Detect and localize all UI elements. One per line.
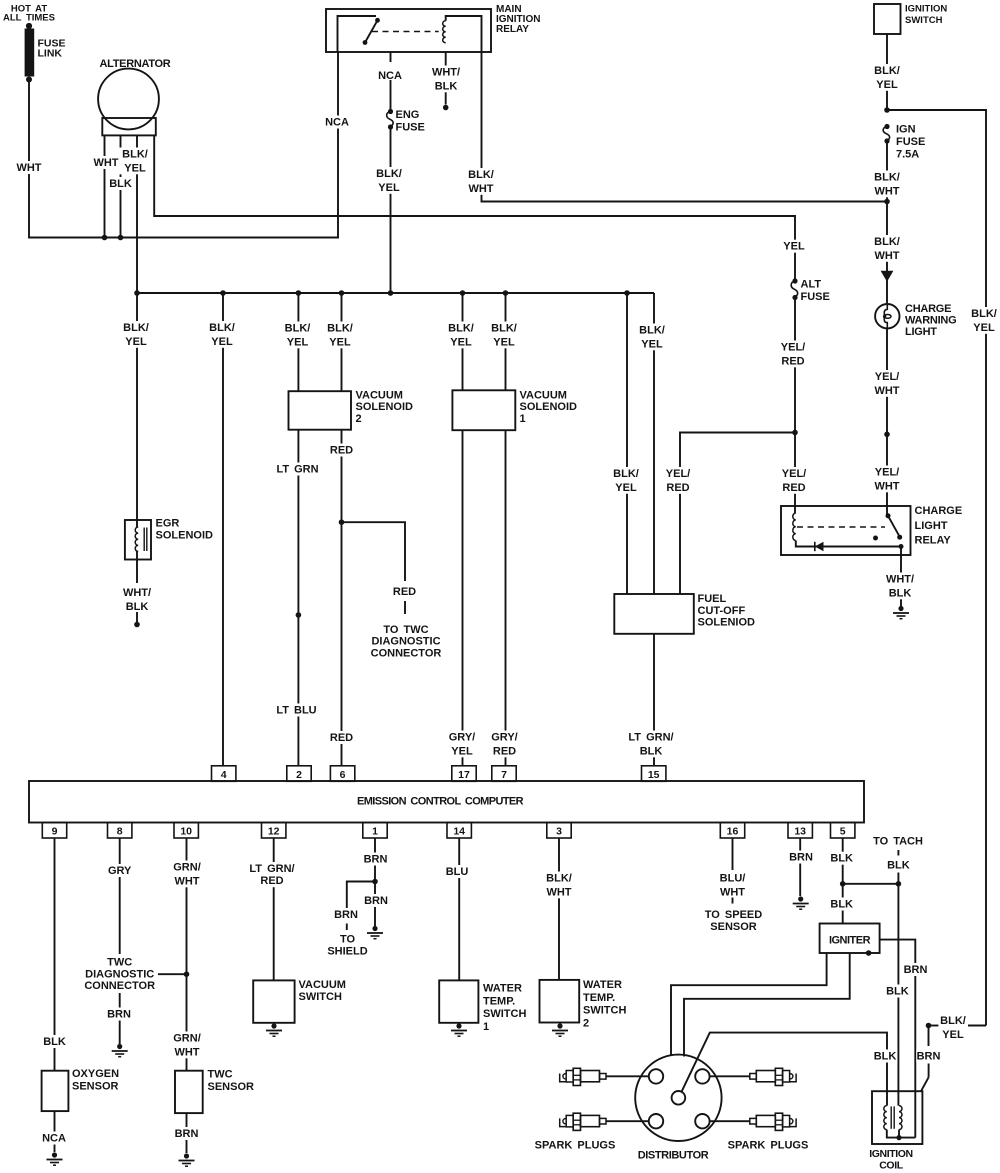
svg-text:16: 16 [727,826,739,838]
svg-text:WHT/: WHT/ [123,587,151,599]
node junction WHT/alternator WHT [102,235,108,241]
wire label BRN (shield branch) [334,908,359,921]
relay K1 switch pivot node [375,18,380,23]
svg-text:WHT: WHT [874,480,899,492]
svg-text:ALL TIMES: ALL TIMES [3,13,55,24]
ECC pin 15 box [642,766,666,782]
svg-text:BLK/: BLK/ [874,65,900,77]
ground below TWC sensor [184,1153,189,1158]
wire BRN dash to shield [346,924,348,931]
svg-text:1: 1 [483,1021,489,1033]
svg-text:1: 1 [372,826,378,838]
wire label BLK (pin 9) [42,1035,67,1048]
wire label BLU [445,865,470,878]
wire label BLK/WHT (below IGN fuse) [871,171,902,198]
wire NCA / ENG FUSE feed from relay [390,52,392,62]
wire TWC diagnostic connector link to GRN/WHT [158,973,187,975]
node bus-pin4 [220,290,226,296]
wire label BLK/YEL (right edge) [968,307,999,334]
svg-text:YEL/: YEL/ [875,467,899,479]
ECC pin 9 box [42,823,66,839]
ignition coil primary winding [884,1106,887,1130]
wire GRY/RED from VS1 to ECC pin 7 [505,430,507,766]
TWC diagnostic connector label [84,956,156,993]
ground below BRN pin 1 [372,926,377,931]
igniter U2 box [820,924,880,954]
wire GRY from ECC pin 8 [119,838,121,954]
fuse F-ENG [388,109,393,114]
wire BLK/YEL stub [929,1025,939,1027]
wire label BLK/YEL (VS1 right) [488,322,519,349]
wire label BLK/WHT (to warning light) [871,235,902,262]
ignition coil T1 box [872,1091,922,1144]
svg-text:WATER: WATER [583,979,622,991]
svg-text:VACUUM: VACUUM [520,390,567,402]
ECC pin 3 box [547,823,571,839]
wire WHT from fuse link to NCA rail [29,52,338,238]
svg-text:CONNECTOR: CONNECTOR [371,647,442,659]
ECC pin 13 box [788,823,812,839]
wire label GRY [108,864,133,877]
svg-text:YEL: YEL [641,338,663,350]
node bus-ENGfuse [388,290,394,296]
wire label GRY/RED [489,731,520,758]
wire label WHT/BLK (relay coil) [430,66,461,93]
wire BRN branch to shield [347,882,375,909]
svg-text:BLK/: BLK/ [940,1015,966,1027]
spark plug top-left [600,1074,607,1080]
wire BRN from ECC pin 13 [799,838,801,896]
wire label LT GRN/BLK [625,731,677,758]
wire label BLK/YEL (alternator) [119,148,150,175]
relay K1 switch arm end node [363,40,368,45]
wire BLK from tach junction to ignition coil [897,884,899,1106]
wire label WHT/BLK (relay K2) [884,573,915,600]
svg-text:BLK: BLK [126,601,149,613]
wire label RED (below VS2) [329,444,354,457]
svg-text:YEL: YEL [493,336,515,348]
wire BLK/YEL bus end to fuel cut-off solenoid [653,293,655,594]
node bus-pin17 [460,290,466,296]
svg-text:BLK/: BLK/ [122,149,148,161]
node bus-pin7 [503,290,509,296]
svg-text:WHT: WHT [720,886,745,898]
diode D1 in relay K2 [815,542,824,551]
svg-text:IGNITION: IGNITION [905,3,947,14]
wire label WHT/BLK (EGR) [121,586,152,613]
relay K2 spare contact node [873,536,878,541]
svg-text:LIGHT: LIGHT [915,520,948,532]
svg-text:YEL: YEL [451,745,473,757]
wire label BLK/WHT (pin 3) [543,872,574,899]
svg-text:CONNECTOR: CONNECTOR [84,980,155,992]
wire RED jog to TWC diagnostic connector [342,522,406,581]
wire BLU from ECC pin 14 to water temp switch 1 [458,838,460,980]
ECC pin 10 box [174,823,198,839]
wire label BLK/YEL (VS2 right) [324,322,355,349]
node BLK/YEL junction at ignition switch [884,107,890,113]
EGR solenoid coil [136,520,138,527]
svg-text:RED: RED [260,875,283,887]
vacuum solenoid 2 box [289,391,352,430]
wire TACH dash [897,850,899,856]
wire BLK from tach to junction [897,873,899,884]
svg-text:VACUUM: VACUUM [356,390,403,402]
relay K2 switch pivot node [886,513,891,518]
wire label BLK/YEL (pin 4) [206,321,237,348]
svg-text:YEL/: YEL/ [781,342,805,354]
TWC sensor box [175,1071,203,1113]
svg-text:7: 7 [501,769,507,781]
wire label YEL/WHT (lower) [871,466,902,493]
svg-text:BLU/: BLU/ [720,873,746,885]
node BRN junction [372,879,378,885]
EGR solenoid box [125,520,151,560]
node BLK junction pin5 [840,881,846,887]
oxygen sensor box [42,1071,69,1111]
ECC pin 16 box [720,823,744,839]
wire BRN below TWC sensor [186,1113,188,1153]
wire label WHT (alternator) [94,156,119,169]
wire BRN from igniter to ignition coil [880,940,916,1138]
wire label LT GRN/RED [246,862,298,887]
wire label YEL/WHT (upper) [871,370,902,397]
wire BRN from ECC pin 1 [374,838,376,882]
wire YEL/RED to charge light relay coil [794,433,796,514]
ground below TWC diagnostic connector [117,1044,122,1049]
svg-text:4: 4 [221,769,227,781]
svg-text:RELAY: RELAY [915,535,952,547]
relay K2 coil [793,513,796,541]
svg-text:GRY/: GRY/ [449,732,476,744]
wire BLK/YEL from alternator to bus [136,135,138,293]
svg-text:BLK/: BLK/ [468,169,494,181]
wire label NCA (oxygen sensor) [42,1132,67,1145]
svg-text:WHT: WHT [93,157,118,169]
svg-text:COIL: COIL [879,1160,903,1172]
svg-text:FUSE: FUSE [896,136,925,148]
wire LT GRN from VS2 to ECC pin 2 [297,430,299,766]
svg-text:TWC: TWC [208,1069,233,1081]
svg-text:SWITCH: SWITCH [905,15,943,26]
svg-text:BLK/: BLK/ [613,468,639,480]
wire WHT from alternator [104,135,106,237]
wire BLK/YEL bus to vacuum solenoid 1 right [505,293,507,390]
svg-text:SOLENOID: SOLENOID [520,401,578,413]
svg-text:WHT: WHT [546,886,571,898]
svg-text:7.5A: 7.5A [896,149,919,161]
svg-text:GRN/: GRN/ [173,862,201,874]
svg-text:SOLENIOD: SOLENIOD [698,617,756,629]
wire BRN from TWC diagnostic connector [119,993,121,1044]
svg-text:TEMP.: TEMP. [483,995,515,1007]
ground below vacuum switch [273,1023,275,1024]
svg-text:BRN: BRN [904,964,928,976]
wire BLU/WHT from ECC pin 16 [732,838,734,870]
svg-text:YEL: YEL [211,336,233,348]
fuel cut-off solenoid box [614,594,694,634]
wire GRN/WHT from ECC pin 10 to TWC sensor [186,838,188,1071]
svg-text:RED: RED [666,482,689,494]
svg-text:YEL: YEL [125,336,147,348]
vacuum switch box [253,980,294,1022]
EGR solenoid core lines [143,528,145,552]
wire label BLK (pin 5) [830,852,855,865]
wire BLK from ECC pin 9 to oxygen sensor [54,838,56,1071]
svg-text:TO SPEED: TO SPEED [705,909,762,921]
wire BLK/YEL bus to vacuum solenoid 1 left [462,293,464,390]
relay K2 coil bottom wire with diode [796,541,901,547]
svg-text:BRN: BRN [334,909,358,921]
svg-text:SHIELD: SHIELD [327,945,367,957]
wire BLK/YEL bus to vacuum solenoid 2 right [341,293,343,391]
svg-text:BLK/: BLK/ [285,323,311,335]
ECC pin 8 box [108,823,132,839]
wire BRN dash and diagonal to coil corner [928,1064,930,1078]
distributor terminal bottom-left [649,1114,663,1128]
svg-text:1: 1 [520,413,526,425]
svg-text:SPARK PLUGS: SPARK PLUGS [535,1140,616,1152]
ECC pin 7 box [492,766,516,782]
wire BLK/YEL from ENG fuse to bus [390,127,392,293]
svg-text:BLK: BLK [43,1036,66,1048]
wire BLK/YEL branch to right edge [887,110,986,1026]
wire label BLU/WHT [717,872,748,899]
wire label NCA (left of relay) [325,116,350,129]
svg-text:YEL: YEL [378,182,400,194]
wire BLK/YEL from right edge [968,1025,986,1027]
svg-text:SWITCH: SWITCH [583,1005,626,1017]
svg-text:LINK: LINK [38,48,63,60]
svg-text:BLK: BLK [109,178,132,190]
svg-text:YEL: YEL [615,482,637,494]
svg-text:BLK/: BLK/ [327,323,353,335]
wire spark plug bottom-left to distributor [606,1120,649,1122]
node junction WHT/alternator BLK [118,235,124,241]
ignition coil secondary winding [899,1106,902,1130]
wire label NCA (center) [378,69,403,82]
wire label BLK (HT lead) [873,1050,898,1063]
svg-text:EMISSION CONTROL COMPUTER: EMISSION CONTROL COMPUTER [357,796,524,808]
svg-text:YEL: YEL [876,79,898,91]
svg-text:10: 10 [180,826,192,838]
svg-text:IGNITION: IGNITION [869,1148,912,1160]
wire YEL/RED from ALT fuse [794,298,796,433]
svg-text:RED: RED [330,445,353,457]
wire BLK/YEL bus to ECC pin 4 [222,293,224,766]
svg-text:BRN: BRN [175,1128,199,1140]
svg-text:LIGHT: LIGHT [905,326,937,338]
svg-text:YEL: YEL [124,162,146,174]
wire label GRN/WHT (lower) [171,1032,202,1059]
alternator G1 [98,69,159,130]
svg-text:CUT-OFF: CUT-OFF [698,605,746,617]
ECC pin 2 box [287,766,311,782]
wire label GRN/WHT (upper) [171,861,202,888]
svg-text:RELAY: RELAY [496,24,529,35]
main bus wire BLK/YEL horizontal [137,292,654,294]
node BLK junction tach [896,881,902,887]
svg-text:2: 2 [356,413,362,425]
wire igniter to distributor A [671,953,827,1056]
wire WHT/BLK stub to end node [136,612,138,622]
svg-text:DISTRIBUTOR: DISTRIBUTOR [638,1150,709,1162]
svg-text:FUSE: FUSE [801,291,830,303]
node igniter case dot [866,950,872,956]
svg-text:WHT/: WHT/ [886,574,914,586]
wire WHT/BLK below EGR [136,560,138,584]
svg-text:NCA: NCA [325,117,349,129]
wire label YEL [782,240,807,253]
wire WHT/BLK from relay coil [445,52,447,105]
wire LT GRN/RED from ECC pin 12 to vacuum switch [273,838,275,980]
svg-text:YEL: YEL [783,241,805,253]
svg-text:RED: RED [781,355,804,367]
wire label BRN (pin 1) [363,853,388,866]
fuse link FL1 [26,23,32,29]
svg-text:BLK/: BLK/ [971,308,997,320]
node BLK/YEL junction bottom right [926,1023,932,1029]
svg-text:BLU: BLU [446,866,469,878]
spark plug bottom-right [750,1118,757,1124]
wire YEL/WHT to charge light relay [886,434,888,516]
wire BLK horizontal pin5-tach [843,883,899,885]
wire label BRN (TWC diag) [107,1008,132,1021]
node YEL/RED junction [792,430,798,436]
wire label BLK (tach) [886,859,911,872]
svg-text:LT GRN/: LT GRN/ [628,732,673,744]
wire BLK from junction to igniter [842,884,844,924]
relay K1 coil top wire [446,16,482,52]
svg-text:14: 14 [453,826,465,838]
distributor cap circle [635,1055,721,1141]
svg-text:YEL: YEL [329,336,351,348]
wire BLU/WHT dash [732,898,734,904]
svg-text:DIAGNOSTIC: DIAGNOSTIC [371,636,440,648]
svg-text:WHT: WHT [874,250,899,262]
svg-text:ALTERNATOR: ALTERNATOR [100,58,171,70]
svg-text:BRN: BRN [107,1009,131,1021]
wire label BRN (coil case) [916,1050,941,1063]
wire BLK/YEL bus to EGR solenoid [136,293,138,520]
svg-text:SENSOR: SENSOR [72,1080,119,1092]
svg-text:BLK/: BLK/ [546,873,572,885]
wire BLK/YEL bus to vacuum solenoid 2 [297,293,299,391]
svg-text:BLK: BLK [830,899,853,911]
node bus-pin2 [296,290,302,296]
svg-text:TO TACH: TO TACH [873,836,923,848]
ground below water temp switch 1 [458,1023,460,1024]
wire igniter to distributor B [684,953,850,1057]
svg-text:RED: RED [330,732,353,744]
wire label LT GRN [275,463,320,476]
svg-text:BRN: BRN [364,854,388,866]
svg-text:13: 13 [794,826,806,838]
node junction on GRN/WHT wire [184,971,190,977]
svg-text:RED: RED [493,745,516,757]
svg-text:TO: TO [340,934,356,946]
svg-text:NCA: NCA [42,1133,66,1145]
svg-text:17: 17 [458,769,470,781]
svg-text:BLK: BLK [889,587,912,599]
svg-text:YEL/: YEL/ [782,468,806,480]
wire label BRN (TWC sensor) [174,1127,199,1140]
svg-text:YEL/: YEL/ [875,371,899,383]
svg-text:SOLENOID: SOLENOID [156,530,214,542]
wire label RED (TWC jog) [392,585,417,598]
svg-text:RED: RED [782,482,805,494]
relay K1 actuation dashed link [372,31,439,33]
wire label BLK (to igniter) [830,898,855,911]
svg-text:3: 3 [556,826,562,838]
svg-text:YEL/: YEL/ [666,468,690,480]
node RED junction to TWC jog [339,519,345,525]
svg-text:5: 5 [840,826,846,838]
svg-text:TO TWC: TO TWC [383,624,428,636]
ECC pin 14 box [447,823,471,839]
wire YEL/WHT from warning light [886,328,888,435]
svg-text:OXYGEN: OXYGEN [72,1068,119,1080]
ignition coil core lines [890,1106,892,1128]
svg-text:WHT/: WHT/ [432,67,460,79]
node bus-EGR [134,290,140,296]
wire RED dash below label [404,601,406,614]
distributor terminal bottom-right [695,1114,709,1128]
wire label RED (pin 6) [329,731,354,744]
relay K2 switch arm end node [897,535,902,540]
wire GRY/YEL from VS1 to ECC pin 17 [462,430,464,766]
svg-text:YEL: YEL [287,336,309,348]
node WHT/BLK wire end [443,105,449,111]
distributor HT lead to ignition coil [682,1033,887,1106]
wire label BLK (to coil) [885,985,910,998]
wire BLK/YEL bus to fuel cut-off solenoid left [626,293,628,594]
water temp switch 2 box [540,980,580,1023]
emission control computer U1 box [29,781,864,823]
wire spark plug top-right to distributor [710,1075,750,1077]
svg-text:WHT: WHT [174,875,199,887]
main ignition relay K1 box [326,9,491,52]
wire label YEL/RED (upper) [777,341,808,368]
wire BRN from BLK/YEL junction to ignition coil case [928,1026,930,1047]
wire label LT BLU [274,704,319,717]
svg-text:YEL: YEL [973,322,995,334]
relay K1 switch arm [365,20,378,42]
wire spark plug bottom-right to distributor [710,1120,750,1122]
wire spark plug top-left to distributor [606,1075,649,1077]
svg-text:8: 8 [117,826,123,838]
wire label BLK (alternator) [108,177,133,190]
wire BLK/WHT from relay to ignition switch line [482,52,888,202]
spark plug bottom-left [600,1118,607,1124]
svg-text:SPARK PLUGS: SPARK PLUGS [728,1140,809,1152]
svg-text:9: 9 [52,826,58,838]
svg-text:WHT: WHT [174,1046,199,1058]
ECC pin 1 box [363,823,387,839]
wire label BLK/YEL (EGR) [120,321,151,348]
node WHT/BLK end [134,622,140,628]
ignition coil bottom rail [887,1130,916,1138]
wire BLK from alternator [120,135,122,237]
svg-text:BLK: BLK [886,986,909,998]
spark plug top-right [750,1074,757,1080]
ground below pin 13 [798,896,803,901]
svg-text:GRY: GRY [108,865,132,877]
wire label WHT [17,161,42,174]
svg-text:BLK/: BLK/ [209,322,235,334]
wire label BLK/YEL (fuel cutoff left) [610,467,641,494]
ground below charge light relay [898,606,903,611]
